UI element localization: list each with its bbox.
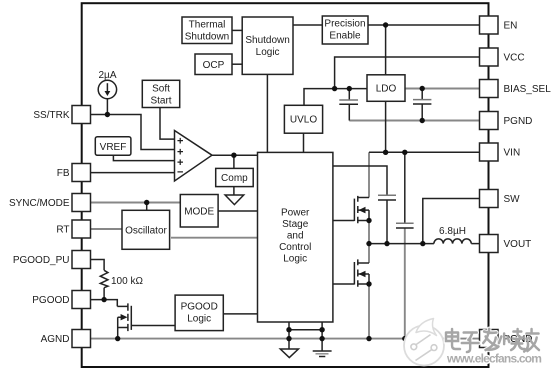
wire BIAS_SEL net [405, 88, 480, 90]
wire SS/TRK to opamp input2 [91, 115, 175, 150]
wire Q2 source to ground rail [368, 284, 370, 339]
svg-text:AGND: AGND [41, 334, 70, 345]
wire boot cap to SW node [386, 200, 388, 244]
wire SYNC/MODE node to Oscillator [146, 203, 148, 211]
svg-text:LDO: LDO [376, 84, 397, 95]
watermark elecfans logo [404, 319, 444, 366]
wire Q3 source to AGND rail [117, 328, 119, 339]
pin FB [72, 164, 91, 182]
ground signal triangle [280, 339, 298, 358]
svg-text:Shutdown: Shutdown [185, 32, 229, 43]
wire FB to opamp inverting input [91, 172, 175, 174]
pin SYNC/MODE [72, 194, 91, 212]
inductor L1 6.8uH [434, 239, 471, 244]
transistor Q3 PGOOD MOSFET [117, 303, 131, 331]
pin RT [72, 220, 91, 238]
wire inductor to VOUT pin [471, 243, 479, 245]
wire Q1 source to SW node [368, 221, 370, 244]
wire SW node to Q2 drain [368, 244, 370, 263]
svg-text:FB: FB [57, 168, 70, 179]
wire current source to SS/TRK [106, 99, 108, 115]
wire Soft Start to opamp input1 [160, 108, 175, 140]
transistor Q2 low-side MOSFET [354, 259, 369, 286]
outer border [82, 3, 489, 367]
svg-text:PGOOD: PGOOD [32, 295, 69, 306]
wire VIN rail to Q1 drain [368, 152, 370, 197]
block Power Stage and Control Logic [258, 152, 333, 322]
watermark chinese text halo [446, 329, 539, 352]
capacitor C4 (VIN input cap) [396, 223, 414, 228]
block MODE [180, 195, 218, 228]
wire Power Stage ground pin B [321, 322, 323, 339]
wire input cap to ground rail [404, 228, 406, 339]
block PGOOD Logic [175, 295, 223, 331]
svg-text:Start: Start [150, 96, 171, 107]
svg-text:6.8µH: 6.8µH [439, 226, 466, 237]
wire comp node down to Comp box [233, 155, 235, 168]
svg-text:Logic: Logic [256, 47, 280, 58]
svg-text:RT: RT [56, 225, 69, 236]
pin PGND bottom [480, 330, 499, 348]
transistor Q1 high-side MOSFET [354, 196, 369, 223]
ground pad triangle below Comp [225, 195, 244, 205]
svg-text:Control: Control [279, 242, 311, 253]
block VREF [95, 137, 131, 156]
wire boot supply from Power Stage [333, 166, 387, 195]
wire Shutdown Logic to Power Stage [266, 74, 268, 152]
wire EN node to LDO [385, 25, 387, 75]
wire opamp output to Power Stage [212, 154, 258, 156]
wire resistor to PGOOD node [103, 288, 105, 300]
pin VCC [480, 48, 499, 66]
wire Precision Enable to EN pin [368, 24, 480, 26]
svg-text:SW: SW [504, 194, 521, 205]
block Soft Start [142, 80, 179, 107]
block Thermal Shutdown [182, 17, 232, 44]
svg-text:Logic: Logic [283, 254, 307, 265]
block Oscillator [122, 210, 170, 249]
wire Thermal Shutdown to Shutdown Logic [232, 29, 242, 31]
pin PGND [480, 112, 499, 130]
wire Oscillator to Power Stage [171, 237, 258, 239]
svg-text:PGOOD_PU: PGOOD_PU [13, 255, 70, 266]
capacitor C1 (VCC bypass) [339, 89, 358, 121]
svg-text:VOUT: VOUT [504, 239, 532, 250]
wire PGOOD Logic to Power Stage [223, 313, 257, 315]
svg-text:BIAS_SEL: BIAS_SEL [504, 84, 552, 95]
svg-text:Power: Power [281, 208, 310, 219]
wire SW node line [369, 243, 434, 245]
svg-text:PGND: PGND [504, 116, 533, 127]
block UVLO [284, 105, 322, 133]
capacitor C3 (bootstrap) [378, 195, 396, 200]
current source 2uA [98, 80, 116, 98]
svg-text:Stage: Stage [282, 219, 309, 230]
svg-text:2µA: 2µA [99, 70, 117, 81]
svg-text:Comp: Comp [221, 173, 248, 184]
wire ground jumper [289, 329, 322, 331]
svg-text:SS/TRK: SS/TRK [33, 110, 69, 121]
svg-text:www.elecfans.com: www.elecfans.com [446, 352, 541, 366]
svg-text:VREF: VREF [100, 142, 127, 153]
svg-text:Soft: Soft [152, 84, 170, 95]
wire Shutdown Logic to Precision Enable [293, 24, 322, 26]
svg-text:Shutdown: Shutdown [245, 35, 289, 46]
pin PGOOD [72, 291, 91, 309]
block LDO [367, 75, 405, 102]
wire PGOOD pin to Q3 drain [91, 300, 118, 307]
wire PGOOD_PU to resistor [91, 260, 105, 271]
svg-text:UVLO: UVLO [290, 115, 317, 126]
wire SW pin riser [423, 199, 480, 244]
svg-text:OCP: OCP [203, 60, 225, 71]
wire VIN pin line [369, 151, 480, 153]
svg-text:SYNC/MODE: SYNC/MODE [9, 198, 70, 209]
block Comp [216, 168, 254, 186]
pin PGOOD_PU [72, 251, 91, 269]
svg-text:Logic: Logic [187, 314, 211, 325]
wire Q2 gate from Power Stage [333, 283, 355, 285]
svg-text:VIN: VIN [504, 148, 521, 159]
block Shutdown Logic [242, 17, 293, 74]
svg-text:MODE: MODE [184, 206, 214, 217]
svg-text:Oscillator: Oscillator [125, 226, 167, 237]
ground earth symbol [313, 339, 332, 357]
pin VIN [480, 143, 499, 161]
wire Power Stage ground pin A [288, 322, 290, 339]
wire Comp box to pad triangle [233, 187, 235, 195]
pin BIAS_SEL [480, 80, 499, 98]
svg-text:−: − [177, 167, 183, 179]
pin AGND [72, 330, 91, 348]
svg-text:and: and [287, 231, 304, 242]
pin VOUT [480, 235, 499, 253]
wire VCC net [335, 57, 480, 89]
svg-text:VCC: VCC [504, 53, 525, 64]
wire MODE to Power Stage [218, 210, 258, 212]
svg-text:Precision: Precision [324, 19, 365, 30]
op-amp U1 error amplifier [175, 131, 213, 182]
gray wires group [91, 89, 480, 339]
wire LDO to VIN line [385, 101, 387, 152]
svg-text:Enable: Enable [329, 31, 361, 42]
wire AGND rail [91, 338, 480, 340]
block OCP [195, 54, 232, 75]
wire VREF to opamp input3 [113, 155, 174, 160]
pin EN [480, 16, 499, 34]
watermark chinese text strokes [446, 329, 539, 352]
pin SS/TRK [72, 106, 91, 124]
wire UVLO to LDO (VCC internal) [304, 89, 367, 106]
resistor R1 100k [100, 270, 108, 287]
wire VIN to input cap [404, 152, 406, 223]
wire RT pin to Oscillator [91, 228, 123, 230]
wire SYNC/MODE pin to MODE [91, 202, 181, 204]
wire UVLO to Power Stage [303, 133, 305, 152]
wire Q1 gate from Power Stage [333, 220, 355, 222]
wire OCP to Shutdown Logic [232, 63, 242, 65]
svg-text:100 kΩ: 100 kΩ [111, 276, 143, 287]
svg-text:EN: EN [504, 21, 518, 32]
svg-text:Thermal: Thermal [189, 20, 226, 31]
capacitor C2 (BIAS_SEL) [413, 89, 431, 121]
pin SW [480, 190, 499, 208]
wire PGOOD Logic to Q3 gate [131, 325, 175, 327]
wire PGND net [349, 120, 479, 122]
block Precision Enable [322, 16, 368, 44]
svg-text:PGOOD: PGOOD [181, 302, 218, 313]
opamp input polarity marks [177, 136, 183, 179]
